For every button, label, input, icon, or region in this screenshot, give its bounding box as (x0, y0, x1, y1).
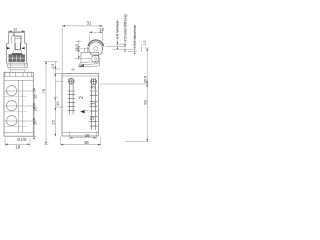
svg-text:16: 16 (34, 95, 38, 99)
svg-text:1.5: 1.5 (143, 41, 147, 46)
svg-text:10.5: 10.5 (75, 44, 79, 51)
svg-text:31: 31 (87, 21, 92, 26)
svg-text:25: 25 (51, 119, 56, 124)
svg-text:8: 8 (13, 31, 15, 36)
svg-text:1: 1 (91, 102, 97, 105)
svg-text:G1/8: G1/8 (17, 137, 27, 142)
svg-text:58: 58 (143, 100, 148, 105)
svg-text:12: 12 (99, 27, 104, 32)
svg-text:2: 2 (79, 96, 85, 99)
svg-text:17: 17 (34, 121, 38, 125)
svg-text:78: 78 (41, 88, 46, 93)
svg-text:4.5: 4.5 (51, 64, 55, 69)
svg-text:16: 16 (55, 101, 60, 106)
svg-text:26: 26 (85, 133, 90, 138)
svg-text:2.5 Vorhub: 2.5 Vorhub (116, 21, 120, 39)
svg-text:39.5: 39.5 (143, 76, 147, 83)
svg-text:3: 3 (91, 86, 97, 89)
svg-text:36: 36 (84, 140, 89, 145)
svg-text:2.5 volle Öffnung: 2.5 volle Öffnung (123, 14, 127, 41)
svg-text:18: 18 (15, 144, 20, 149)
svg-text:16: 16 (34, 108, 38, 112)
svg-text:3.5 Überhub: 3.5 Überhub (133, 25, 137, 45)
svg-text:5: 5 (90, 117, 96, 120)
